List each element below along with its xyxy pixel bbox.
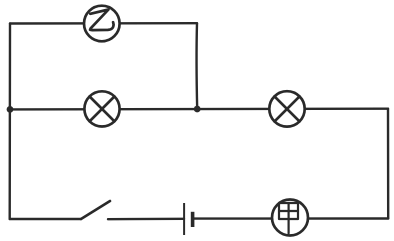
lamp L2 cross stroke 2 bbox=[275, 96, 300, 121]
battery: long plate (positive) bbox=[183, 203, 185, 235]
junction dot (drop / middle branch) bbox=[194, 106, 201, 113]
meter Jia (甲) character glyph: middle horizontal bar bbox=[279, 210, 298, 212]
wire: right vertical rail bbox=[387, 109, 390, 219]
lamp L1 cross stroke 2 bbox=[90, 97, 115, 122]
wire: drop from top branch to middle junction bbox=[195, 23, 198, 109]
wire: left vertical rail bbox=[8, 24, 11, 220]
lamp L1 cross stroke 1 bbox=[90, 97, 115, 122]
switch S (open lever) bbox=[81, 201, 110, 219]
wire: top horizontal (left rail top to drop) bbox=[10, 22, 197, 25]
wire: bottom segment battery to switch bbox=[108, 218, 184, 221]
junction dot (left rail / middle branch) bbox=[7, 106, 14, 113]
lamp L1 body circle bbox=[84, 91, 119, 126]
lamp L2 cross stroke 1 bbox=[275, 96, 300, 121]
wire: bottom left segment (switch pivot to left rail) bbox=[10, 218, 81, 220]
meter Yi (乙) body circle bbox=[84, 6, 120, 42]
meter Jia (甲) character glyph: vertical stroke bbox=[288, 203, 290, 233]
wire: middle horizontal bbox=[10, 107, 388, 110]
meter Jia (甲) character glyph: box bbox=[279, 203, 298, 219]
battery: short thick plate (negative) bbox=[191, 212, 195, 227]
meter Yi (乙) character glyph bbox=[90, 10, 114, 31]
wire: bottom right segment (right rail to battery short plate) bbox=[193, 217, 389, 220]
meter Jia (甲) body circle bbox=[272, 200, 308, 236]
lamp L2 body circle bbox=[269, 91, 304, 126]
